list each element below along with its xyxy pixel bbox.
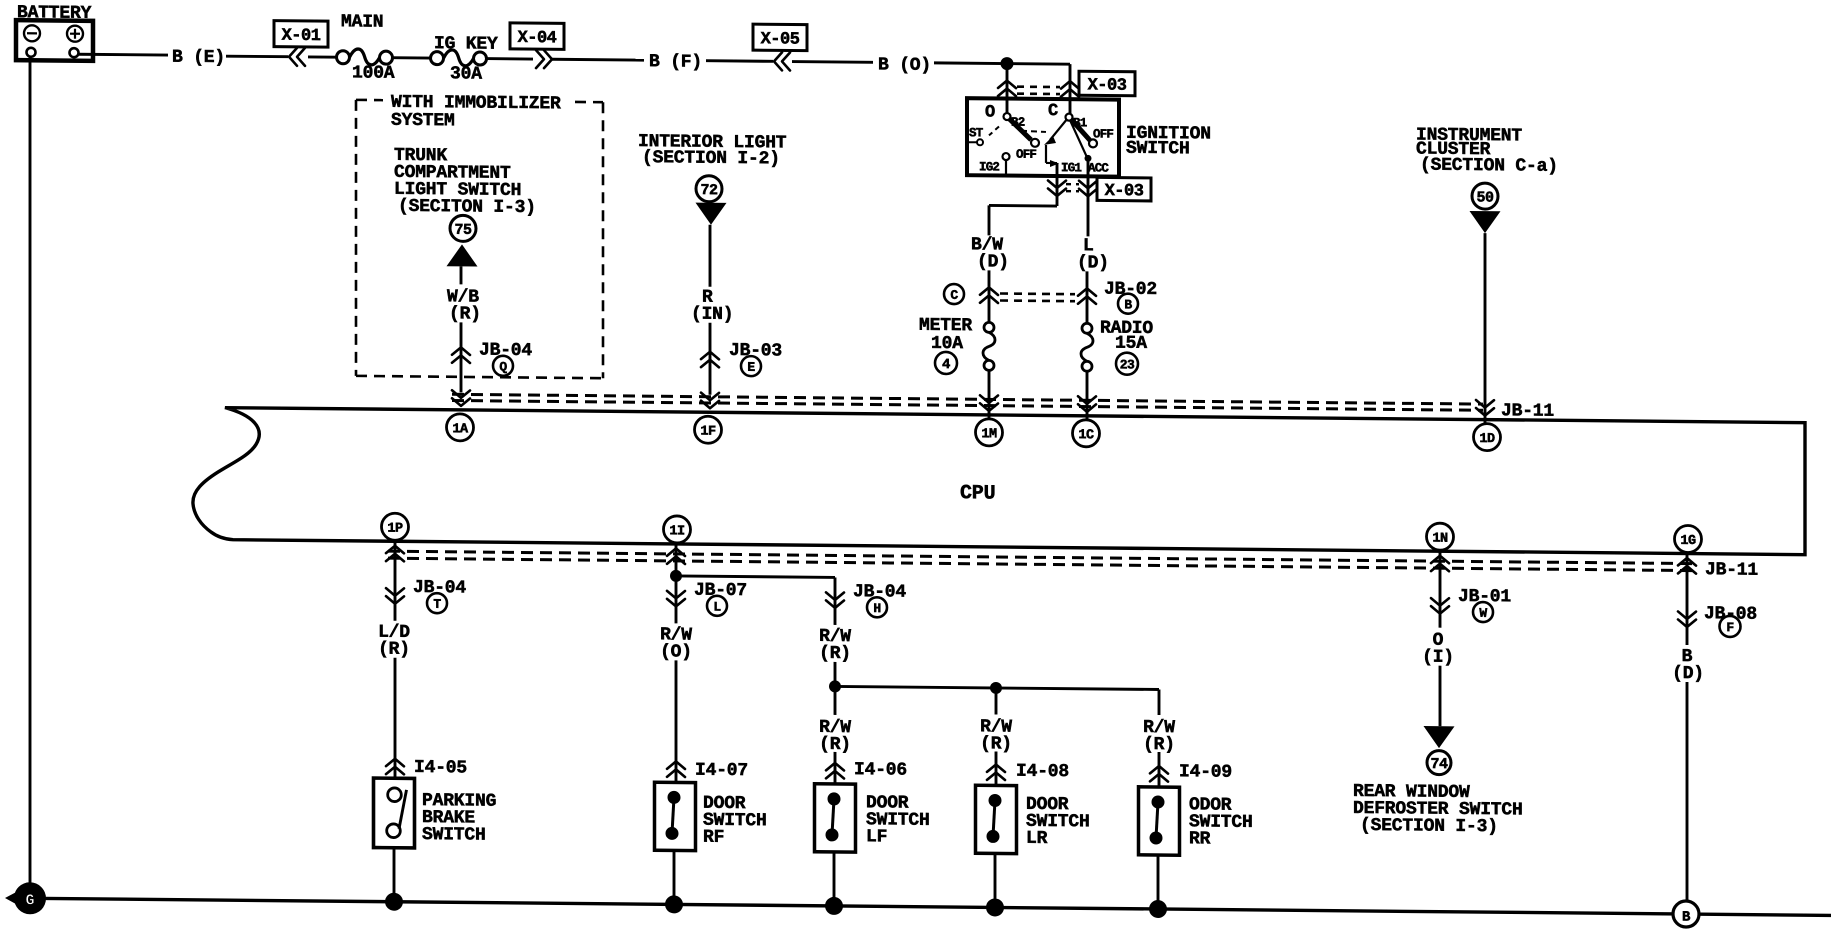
svg-text:(I): (I)	[1422, 648, 1454, 668]
terminal IG2	[1003, 153, 1010, 160]
connector JB-07 L	[667, 591, 685, 599]
terminal ACC	[1070, 120, 1087, 157]
contact arm C	[1050, 119, 1067, 140]
svg-text:X-01: X-01	[282, 27, 321, 46]
position dashes	[989, 126, 999, 135]
svg-text:1C: 1C	[1078, 428, 1094, 443]
door switch RF	[655, 782, 696, 850]
svg-text:4: 4	[942, 357, 950, 373]
wire to 1M	[988, 370, 991, 429]
svg-text:C: C	[1048, 102, 1058, 121]
svg-text:W: W	[1479, 606, 1487, 621]
svg-text:B (E): B (E)	[172, 48, 225, 69]
svg-text:LF: LF	[866, 827, 887, 847]
svg-text:15A: 15A	[1115, 334, 1147, 354]
ground bus	[30, 898, 1831, 915]
ignition switch box U1	[967, 98, 1119, 176]
svg-text:CPU: CPU	[960, 482, 995, 505]
wire to ground	[393, 848, 396, 902]
wire branch to LR RR	[835, 686, 1159, 689]
svg-text:(R): (R)	[378, 640, 410, 660]
terminal 1N	[1427, 523, 1454, 550]
svg-text:ST: ST	[969, 126, 984, 140]
terminal B1	[1066, 114, 1073, 121]
door switch LF	[815, 784, 856, 852]
wire to 1D	[1484, 233, 1487, 434]
svg-text:1M: 1M	[981, 427, 997, 442]
junction block JB-11 top bus	[452, 394, 1483, 404]
svg-text:I4-07: I4-07	[695, 761, 748, 782]
svg-text:X-05: X-05	[761, 30, 800, 49]
arrow from instrument cluster	[1470, 211, 1501, 233]
svg-text:L: L	[713, 599, 721, 614]
svg-text:I4-05: I4-05	[414, 758, 467, 779]
wire to ground	[994, 853, 997, 907]
svg-text:B (O): B (O)	[878, 55, 931, 76]
svg-text:LR: LR	[1026, 829, 1048, 849]
svg-text:E: E	[747, 360, 755, 375]
svg-text:I4-08: I4-08	[1016, 762, 1069, 783]
svg-text:72: 72	[700, 182, 718, 199]
terminal 1A	[447, 414, 474, 441]
svg-text:(R): (R)	[819, 644, 851, 664]
bus exit chevrons bottom	[386, 546, 404, 554]
wire B (E)	[78, 53, 168, 57]
svg-text:B (F): B (F)	[649, 52, 702, 73]
junction block JB-11 bottom bus	[388, 551, 1697, 563]
connector JB-04 T	[386, 588, 404, 596]
right blade B1-OFF	[1071, 119, 1090, 140]
wire B (O)	[792, 60, 873, 64]
connector X-03 lower	[1056, 176, 1059, 206]
connector JB-04 H	[826, 592, 844, 600]
node 50	[1472, 183, 1498, 209]
svg-text:Q: Q	[499, 359, 507, 374]
wire branch to JB-04 H	[676, 576, 835, 578]
svg-text:IG KEY: IG KEY	[434, 34, 498, 55]
arrow to interior light	[696, 203, 727, 225]
node 72	[696, 176, 722, 202]
door switch RR	[1139, 787, 1180, 855]
svg-text:(D): (D)	[1077, 253, 1109, 273]
svg-text:JB-11: JB-11	[1705, 560, 1758, 581]
parking brake switch	[374, 778, 415, 848]
terminal 1C	[1073, 420, 1100, 447]
terminal 1M	[976, 419, 1003, 446]
door switch LR	[976, 785, 1017, 853]
dashed box with immobilizer system	[356, 99, 383, 102]
wire R (IN)	[709, 225, 712, 287]
svg-text:(O): (O)	[660, 642, 692, 662]
svg-text:IG2: IG2	[979, 160, 999, 174]
connector JB-01 W	[1431, 598, 1449, 606]
svg-text:C: C	[950, 288, 958, 303]
wire to ground	[833, 852, 836, 906]
wire to ignition switch B2	[1006, 64, 1009, 117]
terminal 1F	[695, 416, 722, 443]
svg-text:50: 50	[1476, 189, 1494, 206]
connector I4-08	[987, 764, 1005, 772]
connector JB-03 E	[701, 352, 719, 360]
svg-text:(SECTION C-a): (SECTION C-a)	[1420, 155, 1558, 176]
terminal 1D	[1474, 423, 1501, 450]
wire battery negative to ground G	[29, 57, 32, 899]
svg-text:(D): (D)	[1672, 664, 1704, 684]
wire 1G leg	[1686, 552, 1689, 645]
wire	[392, 56, 432, 59]
svg-text:SYSTEM: SYSTEM	[391, 111, 455, 132]
svg-text:1A: 1A	[452, 422, 469, 437]
node 75	[450, 215, 476, 241]
node branch door switches	[829, 680, 841, 692]
CPU box	[193, 407, 1805, 554]
wire to ground	[1157, 855, 1160, 909]
connector X-03 upper	[998, 80, 1016, 88]
svg-text:1I: 1I	[669, 524, 685, 539]
connector X-05	[753, 24, 807, 51]
svg-text:(SECTION I-2): (SECTION I-2)	[642, 148, 780, 169]
wire W/B (R)	[460, 266, 463, 284]
svg-text:IG1: IG1	[1061, 161, 1081, 175]
svg-text:B: B	[1682, 909, 1691, 925]
wire to 1C	[1086, 371, 1089, 430]
svg-text:H: H	[873, 601, 880, 616]
wire JB-04 H leg	[834, 577, 837, 625]
wire 1N leg	[1439, 550, 1442, 628]
wire	[486, 57, 534, 60]
wire to ignition switch B1	[1069, 64, 1072, 114]
connector I4-07	[667, 761, 685, 769]
svg-text:23: 23	[1120, 357, 1135, 372]
svg-text:30A: 30A	[450, 64, 482, 84]
svg-text:G: G	[25, 892, 34, 909]
svg-text:MAIN: MAIN	[341, 12, 383, 32]
wire to ground	[673, 850, 676, 904]
connector JB-08 F	[1678, 611, 1696, 619]
wire B (F)	[552, 58, 644, 62]
svg-text:(IN): (IN)	[691, 305, 733, 325]
svg-text:SWITCH: SWITCH	[1126, 139, 1190, 160]
svg-text:1P: 1P	[387, 522, 403, 537]
arrow to trunk switch	[447, 244, 478, 266]
svg-text:T: T	[433, 597, 441, 612]
terminal IG1	[1050, 160, 1059, 167]
ground junction dots	[385, 893, 403, 911]
svg-text:X-03: X-03	[1088, 76, 1127, 95]
node branch 1I	[670, 570, 682, 582]
svg-text:75: 75	[454, 222, 472, 239]
svg-text:100A: 100A	[352, 63, 395, 83]
ground G	[5, 885, 29, 911]
svg-text:ACC: ACC	[1088, 161, 1109, 175]
svg-text:1F: 1F	[700, 425, 716, 440]
svg-text:1N: 1N	[1432, 532, 1448, 547]
node 74	[1427, 751, 1451, 775]
connector I4-09	[1150, 766, 1168, 774]
connector JB-04 Q	[452, 347, 470, 355]
svg-text:SWITCH: SWITCH	[422, 825, 486, 846]
arrow to rear defroster	[1424, 726, 1455, 748]
svg-text:I4-09: I4-09	[1179, 762, 1232, 783]
svg-text:(R): (R)	[449, 304, 481, 324]
connector I4-05	[386, 759, 404, 767]
svg-text:O: O	[985, 103, 995, 122]
terminal 1P	[382, 513, 409, 540]
connector I4-06	[826, 763, 844, 771]
svg-text:I4-06: I4-06	[854, 760, 907, 781]
svg-text:1G: 1G	[1680, 534, 1696, 549]
terminal 1G	[1675, 525, 1702, 552]
svg-text:OFF: OFF	[1093, 127, 1113, 141]
connector X-04	[510, 23, 564, 50]
bus entry chevrons top	[452, 390, 470, 398]
svg-text:(D): (D)	[977, 252, 1009, 272]
wire 1P to parking brake switch	[394, 540, 397, 621]
svg-text:(SECTION I-3): (SECTION I-3)	[1360, 816, 1498, 837]
svg-text:X-03: X-03	[1105, 182, 1144, 201]
connector X-01	[274, 21, 328, 48]
left blade B2-OFF	[1009, 119, 1031, 140]
svg-text:B: B	[1124, 297, 1132, 312]
connector C / JB-02 B row	[944, 284, 964, 304]
junction node	[1001, 57, 1014, 70]
svg-text:RR: RR	[1189, 829, 1211, 849]
svg-text:1D: 1D	[1479, 432, 1495, 447]
node B	[1673, 901, 1699, 927]
svg-text:RF: RF	[703, 828, 724, 848]
svg-text:74: 74	[1430, 756, 1448, 773]
terminal 1I	[664, 516, 691, 543]
svg-text:OFF: OFF	[1016, 148, 1036, 162]
svg-text:X-04: X-04	[518, 29, 557, 48]
wire B/W (D)	[989, 204, 1057, 208]
svg-text:F: F	[1726, 620, 1734, 635]
wire 1I down	[675, 542, 678, 623]
terminal B2	[1004, 113, 1011, 120]
